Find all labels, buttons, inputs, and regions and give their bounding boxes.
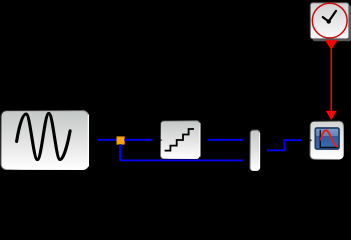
red arrow start triangle bbox=[325, 40, 338, 49]
wire sine to junction bbox=[98, 139, 118, 141]
quantizer block bbox=[161, 121, 201, 159]
wire junction to quantizer bbox=[124, 139, 152, 141]
red wire clock to scope bbox=[330, 48, 332, 112]
clock block bbox=[310, 3, 349, 39]
quantizer input port notch bbox=[160, 139, 162, 142]
wire quantizer to mux upper input bbox=[208, 139, 243, 141]
scope input port notch bbox=[310, 139, 312, 142]
mux block bbox=[250, 130, 260, 171]
clock block shadow bbox=[313, 5, 351, 41]
junction orange square bbox=[117, 137, 125, 145]
wire branch to mux lower input bbox=[119, 159, 243, 161]
wire mux to scope bbox=[267, 140, 302, 150]
wire branch down bbox=[119, 144, 121, 160]
sine wave source block bbox=[1, 111, 88, 170]
red arrowhead at scope bbox=[326, 111, 337, 121]
mux right highlight bbox=[259, 133, 261, 168]
scope block bbox=[310, 121, 343, 159]
